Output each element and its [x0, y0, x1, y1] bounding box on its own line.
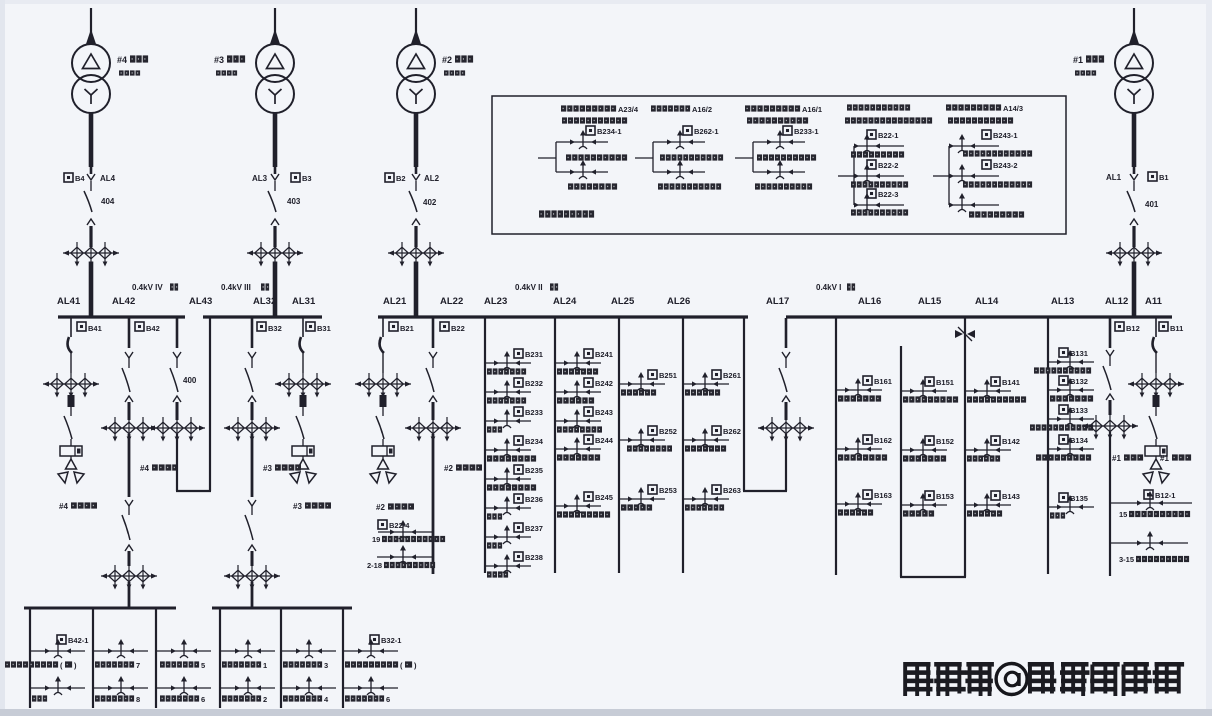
- branch breaker B253: [619, 485, 677, 511]
- node label AL25: [611, 296, 635, 307]
- label central AC unit 1: [222, 661, 267, 670]
- branch tap at (343,688): [343, 676, 398, 695]
- drawout contact (lower) of incomer 403: [271, 219, 279, 247]
- transformer T1 label #1 主变: [1073, 55, 1104, 76]
- chiller board A busbar: [24, 607, 176, 610]
- ATS bottom label: [658, 183, 721, 189]
- svg-text:AL17: AL17: [766, 296, 789, 307]
- branch breaker B251: [619, 370, 677, 396]
- label 15F dining center AHU (duty): [1119, 510, 1190, 519]
- label #3 capacitor bank: [293, 502, 331, 511]
- wire: T2 secondary stem: [414, 112, 419, 167]
- label central AC unit 7: [95, 661, 140, 670]
- svg-text:B261: B261: [723, 371, 741, 380]
- ATS unit header line 1: [745, 105, 822, 114]
- branch breaker B151: [901, 377, 958, 403]
- node label AL14: [975, 296, 999, 307]
- ATS branch label: [963, 181, 1032, 187]
- svg-text:401: 401: [1145, 200, 1159, 209]
- svg-text:B32: B32: [268, 324, 282, 333]
- branch breaker B252: [619, 426, 677, 452]
- wire: T1 secondary stem: [1132, 112, 1137, 167]
- node label AL43: [189, 296, 212, 307]
- svg-text:B233-1: B233-1: [794, 127, 819, 136]
- chiller board B busbar: [212, 607, 352, 610]
- node label AL42: [112, 296, 135, 307]
- svg-text:B32-1: B32-1: [381, 636, 401, 645]
- svg-text:0.4kV I: 0.4kV I: [816, 283, 841, 292]
- svg-text:B234: B234: [525, 437, 544, 446]
- node label AL22: [440, 296, 463, 307]
- ATS branch breaker B234-1 (top): [570, 126, 622, 149]
- circuit breaker 401 blade: [1127, 191, 1135, 212]
- node label AL26: [667, 296, 690, 307]
- svg-text:B243-2: B243-2: [993, 161, 1018, 170]
- branch breaker B143: [965, 491, 1020, 517]
- ATS mid label: [757, 154, 816, 160]
- svg-text:B3: B3: [302, 174, 312, 183]
- ATS detail frame: [492, 96, 1066, 234]
- svg-text:AL32: AL32: [253, 296, 276, 307]
- label central AC unit 5: [160, 661, 205, 670]
- ATS branch label: [963, 150, 1032, 156]
- svg-text:6: 6: [386, 695, 390, 704]
- svg-text:B162: B162: [874, 436, 892, 445]
- ATS bottom label: [568, 183, 617, 189]
- drawout contact (lower) of incomer 402: [412, 219, 420, 247]
- feeder B32 drawout breaker chain: [245, 318, 256, 420]
- busbar 0.4kV section I: [786, 315, 1172, 318]
- label 19F dining center AHU (standby): [372, 535, 445, 544]
- branch breaker B42-1: [57, 635, 88, 645]
- fuse feeder B31: [300, 395, 307, 407]
- svg-text:B245: B245: [595, 493, 613, 502]
- svg-text:B235: B235: [525, 466, 543, 475]
- svg-text:#2: #2: [376, 503, 385, 512]
- transformer T3 (#3 main transformer, delta-wye): [256, 44, 294, 113]
- branch tap at (156,651): [156, 639, 211, 658]
- breaker label B11: [1159, 322, 1183, 333]
- ATS branch breaker B22-2: [854, 160, 898, 183]
- busbar 0.4kV section II: [378, 315, 748, 318]
- fuse feeder B41: [68, 395, 75, 407]
- svg-text:): ): [414, 661, 417, 670]
- ATS unit bracket (3-branch): [854, 146, 904, 205]
- svg-text:B135: B135: [1070, 494, 1088, 503]
- label #2 capacitor bank: [376, 503, 414, 512]
- svg-text:B41: B41: [88, 324, 102, 333]
- branch breaker B12-1: [1110, 490, 1192, 510]
- label 19F dining center AC (standby): [5, 661, 77, 670]
- svg-text:B241: B241: [595, 350, 613, 359]
- distribution column AL15 riser (off-bus): [900, 346, 902, 577]
- chiller board A column 2: [92, 608, 94, 708]
- svg-text:B232: B232: [525, 379, 543, 388]
- svg-text:AL31: AL31: [292, 296, 316, 307]
- feeder B22 drawout breaker chain: [426, 318, 437, 420]
- ATS unit lead wire: [735, 157, 753, 159]
- svg-text:403: 403: [287, 197, 301, 206]
- drawout contact (upper) of incomer 403: [271, 167, 279, 191]
- contactor box feeder B31: [292, 439, 314, 456]
- svg-text:AL22: AL22: [440, 296, 463, 307]
- transformer T1 (#1 main transformer, delta-wye): [1115, 44, 1153, 113]
- contactor box feeder B11: [1145, 439, 1167, 456]
- branch breaker B243: [555, 407, 613, 433]
- branch tap at (156,688): [156, 676, 211, 695]
- net label 0.4kV III section: [221, 283, 269, 292]
- svg-text:AL41: AL41: [57, 296, 81, 307]
- drawout contact (upper) of incomer 404: [87, 167, 95, 191]
- transformer T4 incoming line: [86, 8, 96, 44]
- svg-text:B11: B11: [1170, 324, 1183, 333]
- breaker label B21: [389, 322, 414, 333]
- capacitor bank #4: [58, 456, 84, 483]
- feeder B11 switch: [1153, 318, 1157, 373]
- wire: incomer T2 to busbar: [414, 262, 419, 317]
- wire: tie 400 U-loop to section III: [176, 318, 211, 491]
- branch breaker B152: [901, 436, 954, 462]
- ATS branch breaker (bottom): [667, 160, 693, 179]
- svg-text:B134: B134: [1070, 436, 1089, 445]
- ATS unit header line 2: [747, 117, 808, 123]
- svg-text:8: 8: [136, 695, 140, 704]
- svg-text:B262: B262: [723, 427, 741, 436]
- ATS branch breaker (unlabelled): [949, 193, 975, 212]
- svg-text:B253: B253: [659, 486, 677, 495]
- incomer label AL1 / B1: [1106, 172, 1169, 209]
- svg-text:B242: B242: [595, 379, 613, 388]
- wire to distribution board busbar: [251, 582, 254, 608]
- svg-text:#2: #2: [442, 55, 452, 65]
- ATS branch breaker (bottom): [767, 160, 793, 179]
- svg-text:#4: #4: [117, 55, 127, 65]
- chiller board B column 2: [280, 608, 282, 708]
- ATS branch breaker B262-1 (top): [667, 126, 719, 149]
- feeder B42 drawout breaker chain: [122, 318, 133, 420]
- svg-text:B2: B2: [396, 174, 406, 183]
- distribution column AL16 riser: [835, 318, 837, 575]
- svg-text:B262-1: B262-1: [694, 127, 719, 136]
- contactor box feeder B41: [60, 439, 82, 456]
- node label AL12: [1105, 296, 1128, 307]
- circuit breaker 404 blade: [84, 191, 92, 212]
- tap wire 2-18F fan coil feed: [377, 545, 432, 564]
- ATS mid label: [566, 154, 627, 160]
- branch tap at (93,688): [93, 676, 148, 695]
- svg-text:B42-1: B42-1: [68, 636, 88, 645]
- node label A11: [1145, 296, 1163, 307]
- svg-text:B243-1: B243-1: [993, 131, 1018, 140]
- node label AL31: [292, 296, 316, 307]
- svg-text:400: 400: [183, 376, 197, 385]
- wire: T4 secondary stem: [89, 112, 94, 167]
- branch breaker B241: [555, 349, 613, 375]
- svg-text:AL15: AL15: [918, 296, 942, 307]
- wire: feeder B42 down to chiller board: [128, 434, 131, 497]
- branch breaker B262: [683, 426, 741, 452]
- svg-text:AL25: AL25: [611, 296, 635, 307]
- branch breaker B236: [485, 494, 543, 520]
- svg-text:AL14: AL14: [975, 296, 999, 307]
- svg-text:0.4kV II: 0.4kV II: [515, 283, 543, 292]
- node label AL15: [918, 296, 942, 307]
- drawout contact (lower) of incomer 401: [1130, 219, 1138, 247]
- CT trio lower B42: [101, 565, 157, 590]
- busbar 0.4kV section IV: [58, 315, 185, 318]
- svg-text:7: 7: [136, 661, 140, 670]
- chiller board A column 3: [155, 608, 157, 708]
- svg-text:A16/2: A16/2: [692, 105, 712, 114]
- contactor box feeder B21: [372, 439, 394, 456]
- branch breaker B131: [1034, 348, 1094, 374]
- ATS unit lead wire: [538, 157, 556, 159]
- ATS unit header line 2: [845, 117, 932, 123]
- svg-text:0.4kV III: 0.4kV III: [221, 283, 251, 292]
- node label AL41: [57, 296, 81, 307]
- svg-text:5: 5: [201, 661, 205, 670]
- svg-text:B153: B153: [936, 492, 954, 501]
- svg-text:B12: B12: [1126, 324, 1140, 333]
- label #3 chiller group: [263, 464, 301, 473]
- ATS unit lead wire: [635, 157, 653, 159]
- ATS unit header line 1: [561, 105, 639, 114]
- svg-text:B22-2: B22-2: [878, 161, 898, 170]
- branch breaker B163: [836, 490, 892, 516]
- svg-text:15: 15: [1119, 510, 1127, 519]
- distribution column AL24 riser: [554, 318, 556, 573]
- CT trio feeder B42: [101, 417, 157, 442]
- svg-text:B22-1: B22-1: [878, 131, 898, 140]
- svg-text:B263: B263: [723, 486, 741, 495]
- svg-text:AL3: AL3: [252, 174, 268, 183]
- transformer T4 label #4 主变: [117, 55, 148, 76]
- circuit breaker 402 blade: [409, 191, 417, 212]
- tap wire B22-4: [378, 520, 432, 539]
- distribution column AL23 riser: [484, 318, 486, 573]
- svg-text:B22-3: B22-3: [878, 190, 898, 199]
- capacitor bank #1: [1143, 456, 1169, 483]
- svg-text:AL21: AL21: [383, 296, 407, 307]
- capacitor bank #2: [370, 456, 396, 483]
- label central AC unit 8: [95, 695, 140, 704]
- svg-text:#1: #1: [1112, 454, 1121, 463]
- svg-text:AL13: AL13: [1051, 296, 1074, 307]
- svg-text:B152: B152: [936, 437, 954, 446]
- wire: incomer T3 to busbar: [273, 262, 278, 317]
- busbar 0.4kV section III: [203, 315, 322, 318]
- net label 0.4kV II section: [515, 283, 558, 292]
- node label AL32: [253, 296, 276, 307]
- svg-text:AL1: AL1: [1106, 173, 1122, 182]
- branch breaker B142: [965, 436, 1020, 462]
- svg-text:B1: B1: [1159, 173, 1169, 182]
- svg-text:3: 3: [324, 661, 328, 670]
- svg-text:A11: A11: [1145, 296, 1163, 307]
- svg-text:1: 1: [263, 661, 267, 670]
- bus tie AL17 breaker chain: [779, 318, 790, 420]
- feeder B31 switch: [300, 318, 304, 373]
- svg-text:404: 404: [101, 197, 115, 206]
- branch breaker B245: [555, 492, 613, 518]
- feeder AL12 drawout breaker chain: [1103, 318, 1114, 415]
- svg-text:#3: #3: [263, 464, 272, 473]
- label central AC unit 2: [222, 695, 267, 704]
- label #4 capacitor bank: [59, 502, 97, 511]
- distribution column AL13 riser: [1047, 318, 1049, 574]
- tap wire 3-15F fan coil feed: [1110, 531, 1188, 550]
- breaker label B22: [440, 322, 465, 333]
- drawout contact (upper) of incomer 402: [412, 167, 420, 191]
- svg-text:6: 6: [201, 695, 205, 704]
- svg-text:B31: B31: [317, 324, 331, 333]
- label #4 chiller group: [140, 464, 178, 473]
- branch tap at (220,651): [220, 639, 275, 658]
- CT trio lower B32: [224, 565, 280, 590]
- branch breaker B244: [555, 435, 614, 461]
- svg-text:2-18: 2-18: [367, 561, 382, 570]
- label 3-15F fan coil power: [1119, 555, 1189, 564]
- breaker label B31: [306, 322, 331, 333]
- transformer T4 (#4 main transformer, delta-wye): [72, 44, 110, 113]
- ATS unit bracket (3-branch): [949, 146, 999, 205]
- svg-text:B4: B4: [75, 174, 85, 183]
- CT/meter trio on incomer T2: [388, 242, 444, 267]
- ATS unit lead wire: [933, 175, 949, 177]
- node label AL13: [1051, 296, 1074, 307]
- branch breaker B134: [1036, 435, 1094, 461]
- svg-text:AL43: AL43: [189, 296, 212, 307]
- svg-text:B161: B161: [874, 377, 892, 386]
- svg-text:B22-4: B22-4: [389, 521, 410, 530]
- label central AC unit 6: [345, 695, 390, 704]
- node label AL23: [484, 296, 507, 307]
- ATS branch label: [851, 151, 904, 157]
- svg-text:#3: #3: [293, 502, 302, 511]
- branch breaker B153: [901, 491, 954, 517]
- svg-text:2: 2: [263, 695, 267, 704]
- svg-text:B151: B151: [936, 378, 954, 387]
- ATS branch breaker B22-1: [854, 130, 898, 153]
- wire: feeder B22 riser: [432, 434, 435, 574]
- ATS unit header line 1: [946, 104, 1023, 113]
- CT trio feeder B31: [275, 373, 331, 398]
- svg-text:AL12: AL12: [1105, 296, 1128, 307]
- label #2 elevator room feed: [444, 464, 482, 473]
- svg-text:0.4kV IV: 0.4kV IV: [132, 283, 163, 292]
- branch breaker B141: [965, 377, 1026, 403]
- feeder B32 lower breaker chain: [245, 500, 256, 566]
- drawout contact (upper) of incomer 401: [1130, 167, 1138, 191]
- chiller board B column 3: [342, 608, 344, 708]
- branch breaker B238: [485, 552, 543, 578]
- CT/meter trio on incomer T3: [247, 242, 303, 267]
- breaker label B42: [135, 322, 160, 333]
- ATS unit bracket: [556, 142, 608, 172]
- branch tap at (281,651): [281, 639, 336, 658]
- chiller board B column 1: [219, 608, 221, 708]
- fuse feeder B11: [1153, 395, 1160, 407]
- feeder B42 lower breaker chain: [122, 500, 133, 566]
- wire to distribution board busbar: [128, 582, 131, 608]
- incomer label AL3 / B3: [252, 173, 312, 206]
- label spare: [32, 695, 47, 701]
- svg-text:A14/3: A14/3: [1003, 104, 1023, 113]
- normally-open plug marker on AL14: [955, 327, 975, 341]
- label 19F dining center AC (duty): [345, 661, 417, 670]
- breaker label B41: [77, 322, 102, 333]
- chiller board A column 1: [29, 608, 31, 708]
- branch breaker B231: [485, 349, 543, 375]
- branch breaker B261: [683, 370, 741, 396]
- svg-text:AL26: AL26: [667, 296, 690, 307]
- net label 0.4kV I section: [816, 283, 855, 292]
- branch breaker B235: [485, 465, 543, 491]
- bus tie breaker 400 chain: [170, 318, 181, 420]
- switch blade feeder B11: [1149, 407, 1157, 439]
- svg-text:A23/4: A23/4: [618, 105, 639, 114]
- CT trio feeder B32: [224, 417, 280, 442]
- transformer T1 incoming line: [1129, 8, 1139, 44]
- CT trio feeder B11: [1128, 373, 1184, 398]
- ATS branch label: [969, 211, 1024, 217]
- svg-text:B244: B244: [595, 436, 614, 445]
- svg-text:#1: #1: [1160, 454, 1169, 463]
- switch blade feeder B21: [376, 407, 384, 439]
- feeder B21 switch: [380, 318, 384, 373]
- ATS branch breaker B233-1 (top): [767, 126, 819, 149]
- branch breaker B32-1: [370, 635, 401, 645]
- breaker label B32: [257, 322, 282, 333]
- svg-text:B236: B236: [525, 495, 543, 504]
- switch blade feeder B31: [296, 407, 304, 439]
- svg-text:B251: B251: [659, 371, 677, 380]
- svg-text:B22: B22: [451, 324, 465, 333]
- ATS branch label: [851, 209, 908, 215]
- branch breaker B161: [836, 376, 892, 402]
- branch tap at (30,651): [30, 639, 85, 658]
- wire: incomer T4 to busbar: [89, 262, 94, 317]
- svg-text:B132: B132: [1070, 377, 1088, 386]
- distribution column AL14 riser: [964, 318, 966, 577]
- branch breaker B135: [1048, 493, 1094, 519]
- svg-text:19: 19: [372, 535, 380, 544]
- watermark sohu @ acrel: [903, 662, 1184, 696]
- ATS unit header line 1: [847, 104, 910, 110]
- ATS bottom label: [755, 183, 812, 189]
- svg-text:4: 4: [324, 695, 329, 704]
- wire: incomer T1 to busbar: [1132, 262, 1137, 317]
- ATS mid label: [660, 154, 723, 160]
- svg-text:AL2: AL2: [424, 174, 440, 183]
- CT trio tie AL17: [758, 417, 814, 442]
- svg-text:B141: B141: [1002, 378, 1020, 387]
- ATS branch label: [851, 181, 908, 187]
- breaker label B12: [1115, 322, 1140, 333]
- svg-text:#3: #3: [214, 55, 224, 65]
- svg-text:(: (: [400, 661, 403, 670]
- svg-text:AL16: AL16: [858, 296, 881, 307]
- CT trio feeder B21: [355, 373, 411, 398]
- svg-text:B12-1: B12-1: [1155, 491, 1175, 500]
- svg-text:(: (: [60, 661, 63, 670]
- ATS unit header line 2: [562, 117, 627, 123]
- branch breaker B162: [836, 435, 892, 461]
- branch tap at (343,651): [343, 639, 398, 658]
- svg-text:B143: B143: [1002, 492, 1020, 501]
- ATS unit bracket: [653, 142, 705, 172]
- label 2-18F fan coil power: [367, 561, 435, 570]
